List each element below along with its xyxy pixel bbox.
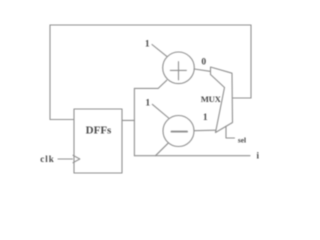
- wire into DFFs D input: [50, 119, 74, 121]
- svg-text:0: 0: [201, 57, 206, 67]
- wire mid vertical bus: [133, 88, 135, 155]
- wire mux output to feedback: [233, 97, 252, 99]
- svg-text:1: 1: [145, 98, 150, 108]
- svg-text:MUX: MUX: [201, 94, 222, 104]
- wire feedback left vertical: [49, 25, 51, 120]
- wire feedback right vertical: [250, 25, 252, 98]
- svg-text:clk: clk: [40, 154, 55, 164]
- svg-text:1: 1: [145, 40, 150, 50]
- wire to adder horizontal: [134, 87, 158, 89]
- wire subtractor to MUX input 1: [194, 129, 216, 132]
- svg-text:1: 1: [203, 113, 208, 123]
- wire adder to MUX input 0: [194, 69, 210, 71]
- wire to subtractor diagonal: [156, 143, 169, 155]
- wire DFFs output: [122, 119, 134, 121]
- wire bottom output i: [134, 155, 250, 157]
- clk edge triangle: [73, 155, 80, 162]
- svg-text:DFFs: DFFs: [86, 124, 112, 136]
- adder plus sign: [170, 62, 186, 80]
- wire constant 1 into adder: [152, 45, 167, 57]
- subtractor minus sign: [172, 131, 188, 133]
- svg-text:sel: sel: [238, 136, 246, 145]
- MUX body polygon: [211, 67, 233, 133]
- svg-text:i: i: [257, 151, 260, 161]
- wire feedback top: [50, 24, 251, 26]
- clk arrow wire: [58, 158, 73, 160]
- wire sel: [226, 126, 235, 138]
- DFFs box: [74, 109, 122, 173]
- wire constant 1 into subtractor: [152, 104, 168, 118]
- adder U1 circle: [163, 52, 195, 84]
- wire to adder diagonal: [158, 80, 167, 88]
- subtractor U2 circle: [163, 116, 194, 147]
